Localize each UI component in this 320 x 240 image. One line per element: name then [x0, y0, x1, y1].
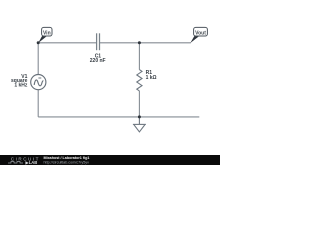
capacitor C1: [97, 33, 100, 50]
svg-text:220 nF: 220 nF: [90, 58, 106, 64]
svg-text:http://circuitlab.com/c7ry5yv: http://circuitlab.com/c7ry5yv: [44, 161, 90, 165]
junction node R1 bottom: [138, 115, 141, 118]
svg-text:1 kΩ: 1 kΩ: [146, 75, 157, 81]
ground: [133, 117, 146, 132]
wire top from C1 right plate to Vout tail: [100, 42, 191, 44]
wire R1 branch upper: [138, 43, 140, 70]
wire left vertical from V1 bottom to bottom rail: [37, 90, 39, 117]
svg-text:Vin: Vin: [43, 31, 51, 37]
node flag Vout: [190, 27, 207, 43]
wire R1 branch lower: [138, 91, 140, 117]
svg-text:Mixahost / Laborator1 fig1: Mixahost / Laborator1 fig1: [44, 156, 90, 160]
footer bar: [0, 155, 220, 165]
resistor R1: [137, 70, 142, 91]
svg-text:Vout: Vout: [195, 31, 206, 37]
voltage source V1: [31, 75, 46, 90]
node flag Vin: [38, 27, 52, 43]
wire top from Vin node to C1 left plate: [38, 42, 96, 44]
svg-text:▶LAB: ▶LAB: [25, 160, 38, 165]
junction node at Vin corner: [37, 41, 40, 44]
junction node R1 top: [138, 41, 141, 44]
svg-text:1 kHz: 1 kHz: [14, 83, 28, 89]
wire left vertical from Vin node to V1 top: [37, 43, 39, 75]
wire bottom rail: [38, 116, 199, 118]
